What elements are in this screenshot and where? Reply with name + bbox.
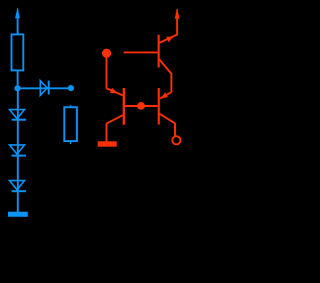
Q3 emitter arrow (166, 36, 174, 42)
diode D4 (horizontal, pointing right) (40, 81, 48, 96)
stub R2 bottom (70, 142, 72, 144)
wire R1 to node (17, 70, 19, 88)
Q1 emitter diagonal (107, 88, 123, 95)
wire node A down (106, 53, 108, 89)
node A dot (red) (102, 49, 111, 58)
stub R2 top (70, 105, 72, 107)
base wire Q1-Q2 (125, 105, 158, 107)
ground (red) (98, 141, 117, 146)
wire D2 to D3 (17, 156, 19, 192)
diode D1 (pointing down) (10, 110, 26, 120)
Q1 emitter arrow (110, 88, 118, 93)
wire node to D1 (17, 91, 19, 120)
wire D1 to D2 (17, 120, 19, 156)
resistor R1 (12, 34, 24, 70)
output wire up (176, 16, 178, 36)
resistor R2 (64, 107, 77, 141)
Q3 emitter diagonal (159, 35, 177, 43)
Q3 collector diagonal (159, 59, 171, 74)
wire Q1 collector down (106, 123, 108, 141)
diode D3 (pointing down) (10, 181, 26, 192)
Q1 collector diagonal (106, 115, 122, 123)
output arrow (175, 8, 180, 19)
wire arrow to R1 (17, 16, 19, 35)
node junction dot (14, 85, 20, 91)
transistor Q3 bar (158, 35, 160, 68)
base wire to Q3 (gap after node A) (124, 51, 158, 53)
wire D4 to terminal dot (50, 87, 68, 89)
wire D3 to ground (17, 191, 19, 212)
diagonal to Q2 emitter (160, 92, 171, 98)
diode D2 (pointing down) (10, 145, 26, 156)
wire Q2 collector down (174, 123, 176, 136)
wire Q3 collector down (170, 74, 172, 93)
ground (blue) (8, 212, 28, 217)
node B dot (137, 102, 145, 110)
transistor Q1 bar (123, 88, 125, 125)
wire node to D4 (18, 87, 50, 89)
output terminal circle (172, 136, 180, 144)
power arrow V+ (blue) (15, 7, 20, 18)
transistor Q2 bar (158, 88, 160, 125)
Q2 collector diagonal (160, 114, 176, 124)
Q2 emitter arrow (161, 93, 169, 99)
terminal dot (68, 85, 74, 91)
